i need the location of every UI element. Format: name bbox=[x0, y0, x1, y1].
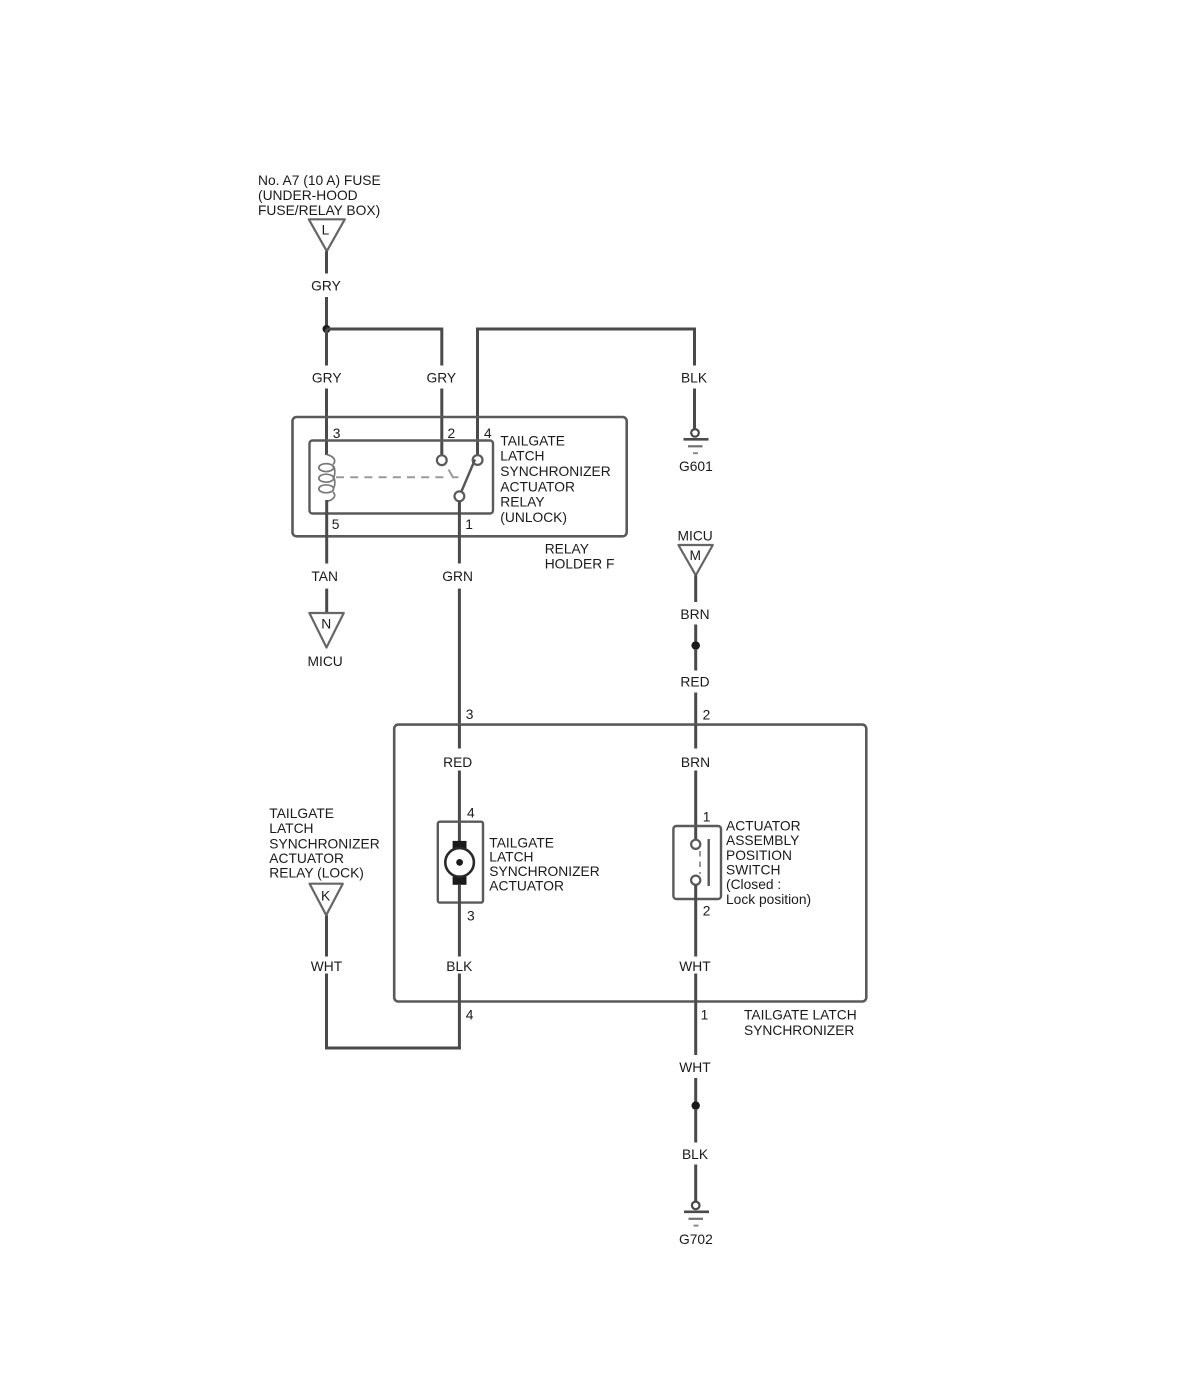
wire ground branch resume to G601 bbox=[693, 389, 696, 430]
svg-text:BRN: BRN bbox=[680, 607, 709, 622]
wire GRN down to synchronizer box bbox=[458, 589, 461, 725]
relay holder F outer box bbox=[293, 417, 627, 536]
svg-text:WHT: WHT bbox=[679, 1060, 711, 1075]
wire coil bottom to pin 5 exit bbox=[325, 500, 328, 564]
relay coil bbox=[319, 455, 335, 502]
wire junction to branch 2 horizontal bbox=[327, 328, 442, 331]
relay contact pin 2 bbox=[437, 455, 447, 465]
junction dot bbox=[323, 325, 331, 333]
svg-text:BLK: BLK bbox=[446, 959, 473, 974]
wire L to GRY bbox=[325, 251, 328, 273]
wire pin-4 top horizontal to ground branch bbox=[478, 328, 695, 331]
svg-text:G702: G702 bbox=[679, 1232, 713, 1247]
wire junction down (left GRY branch) bbox=[325, 329, 328, 366]
switch contact bottom bbox=[691, 876, 700, 885]
synchronizer box label bbox=[744, 1008, 857, 1038]
splice dot WHT/BLK bbox=[692, 1101, 700, 1109]
wire splice to RED bbox=[694, 649, 697, 671]
connector N (MICU) bbox=[309, 613, 343, 648]
svg-text:RED: RED bbox=[680, 675, 709, 690]
svg-text:(UNLOCK): (UNLOCK) bbox=[500, 510, 567, 525]
wire actuator pin 3 down bbox=[458, 885, 461, 957]
svg-text:1: 1 bbox=[701, 1008, 709, 1023]
wire box pin 2 to BRN bbox=[694, 725, 697, 749]
svg-text:LATCH: LATCH bbox=[500, 449, 544, 464]
wire box pin 3 to RED bbox=[458, 725, 461, 749]
connector K (relay lock) bbox=[310, 884, 343, 916]
svg-text:2: 2 bbox=[448, 426, 456, 441]
svg-text:WHT: WHT bbox=[311, 959, 343, 974]
ground G702 bbox=[679, 1202, 713, 1248]
svg-text:HOLDER F: HOLDER F bbox=[545, 556, 615, 571]
switch blade (closed) bbox=[708, 839, 710, 886]
svg-text:BLK: BLK bbox=[681, 371, 708, 386]
svg-text:RELAY (LOCK): RELAY (LOCK) bbox=[269, 866, 364, 881]
svg-text:BRN: BRN bbox=[681, 755, 710, 770]
svg-text:FUSE/RELAY BOX): FUSE/RELAY BOX) bbox=[258, 203, 380, 218]
wire WHT down through box bottom bbox=[694, 974, 697, 1056]
svg-text:TAN: TAN bbox=[311, 569, 338, 584]
svg-text:RELAY: RELAY bbox=[500, 495, 544, 510]
svg-text:MICU: MICU bbox=[678, 529, 713, 544]
svg-text:RED: RED bbox=[443, 755, 472, 770]
wire middle branch resume to relay pin 2 bbox=[440, 389, 443, 456]
wire relay pin 1 down bbox=[458, 501, 461, 563]
wire up to WHT bbox=[325, 974, 328, 1050]
svg-text:N: N bbox=[321, 616, 331, 631]
svg-text:BLK: BLK bbox=[682, 1147, 709, 1162]
splice dot BRN/RED bbox=[691, 641, 700, 650]
wire RED to box pin 2 bbox=[694, 693, 697, 725]
wire M to BRN bbox=[694, 575, 697, 602]
connector M (MICU) bbox=[678, 545, 712, 575]
svg-text:G601: G601 bbox=[679, 459, 713, 474]
svg-text:SYNCHRONIZER: SYNCHRONIZER bbox=[500, 464, 610, 479]
svg-text:TAILGATE: TAILGATE bbox=[489, 835, 554, 850]
svg-text:ACTUATOR: ACTUATOR bbox=[489, 879, 564, 894]
motor M1 center dot bbox=[456, 859, 463, 866]
svg-text:SYNCHRONIZER: SYNCHRONIZER bbox=[489, 864, 599, 879]
svg-text:SYNCHRONIZER: SYNCHRONIZER bbox=[269, 836, 379, 851]
svg-text:ASSEMBLY: ASSEMBLY bbox=[726, 833, 799, 848]
svg-text:ACTUATOR: ACTUATOR bbox=[726, 818, 801, 833]
connector L (fuse terminal triangle) bbox=[309, 219, 345, 251]
svg-text:SWITCH: SWITCH bbox=[726, 863, 780, 878]
wire left branch resume to relay pin 3 bbox=[325, 389, 328, 456]
svg-text:1: 1 bbox=[465, 517, 473, 532]
wire ground branch vertical upper bbox=[693, 328, 696, 366]
switch contact top bbox=[691, 840, 700, 849]
svg-text:SYNCHRONIZER: SYNCHRONIZER bbox=[744, 1023, 854, 1038]
wire switch pin 2 down bbox=[694, 885, 697, 957]
relay lock label text bbox=[269, 806, 379, 881]
svg-text:TAILGATE LATCH: TAILGATE LATCH bbox=[744, 1008, 857, 1023]
wire branch 2 vertical upper bbox=[440, 328, 443, 366]
svg-text:LATCH: LATCH bbox=[269, 821, 313, 836]
relay label text bbox=[500, 433, 610, 525]
svg-text:M: M bbox=[690, 548, 702, 563]
svg-text:1: 1 bbox=[703, 809, 711, 824]
relay actuation dashed link bbox=[336, 470, 459, 478]
svg-text:RELAY: RELAY bbox=[545, 542, 589, 557]
svg-text:WHT: WHT bbox=[679, 959, 711, 974]
motor M1 top brush bbox=[453, 841, 467, 849]
svg-text:3: 3 bbox=[333, 426, 341, 441]
wire relay pin 4 riser bbox=[476, 328, 479, 456]
svg-text:4: 4 bbox=[484, 426, 492, 441]
svg-text:LATCH: LATCH bbox=[489, 850, 533, 865]
svg-text:TAILGATE: TAILGATE bbox=[500, 433, 565, 448]
svg-text:ACTUATOR: ACTUATOR bbox=[269, 851, 344, 866]
wire BLK down through box to turn bbox=[458, 974, 461, 1050]
fuse label No. A7 (10 A) FUSE bbox=[258, 173, 381, 218]
svg-text:2: 2 bbox=[703, 903, 711, 918]
svg-text:L: L bbox=[322, 223, 330, 238]
wire RED to actuator pin 4 bbox=[458, 771, 461, 842]
motor M1 body bbox=[445, 848, 474, 877]
svg-text:GRY: GRY bbox=[312, 371, 342, 386]
wire BRN to splice bbox=[694, 625, 697, 643]
wire horizontal return bbox=[325, 1047, 461, 1050]
switch dashed link bbox=[699, 851, 701, 874]
wire splice to BLK bbox=[694, 1109, 697, 1143]
svg-text:4: 4 bbox=[466, 1008, 474, 1023]
relay inner box bbox=[310, 441, 494, 514]
relay holder label bbox=[545, 542, 615, 572]
actuator box bbox=[438, 822, 483, 903]
wire WHT to splice bbox=[694, 1078, 697, 1102]
svg-text:3: 3 bbox=[467, 909, 475, 924]
svg-text:4: 4 bbox=[467, 806, 475, 821]
svg-text:2: 2 bbox=[703, 708, 711, 723]
motor M1 bottom brush bbox=[453, 877, 467, 885]
wire TAN to connector N bbox=[325, 589, 328, 613]
svg-text:No. A7 (10 A) FUSE: No. A7 (10 A) FUSE bbox=[258, 173, 381, 188]
svg-text:GRY: GRY bbox=[311, 279, 341, 294]
position switch box bbox=[673, 826, 721, 899]
svg-text:ACTUATOR: ACTUATOR bbox=[500, 479, 575, 494]
ground G601 bbox=[679, 429, 713, 474]
relay contact pin 4 bbox=[473, 455, 483, 465]
svg-text:GRY: GRY bbox=[426, 371, 456, 386]
svg-text:Lock position): Lock position) bbox=[726, 892, 811, 907]
svg-text:TAILGATE: TAILGATE bbox=[269, 806, 334, 821]
switch label text bbox=[726, 818, 811, 907]
wire BRN to switch pin 1 bbox=[694, 771, 697, 840]
wire WHT up to connector K bbox=[325, 915, 328, 956]
svg-text:GRN: GRN bbox=[442, 569, 473, 584]
svg-text:POSITION: POSITION bbox=[726, 848, 792, 863]
tailgate latch synchronizer box bbox=[394, 725, 866, 1002]
svg-text:5: 5 bbox=[332, 517, 340, 532]
svg-text:(UNDER-HOOD: (UNDER-HOOD bbox=[258, 188, 358, 203]
actuator label text bbox=[489, 835, 599, 893]
svg-text:3: 3 bbox=[466, 707, 474, 722]
svg-text:MICU: MICU bbox=[308, 654, 343, 669]
relay switch blade bbox=[461, 460, 475, 493]
wire GRY to junction bbox=[325, 297, 328, 329]
relay common contact bbox=[455, 491, 465, 501]
svg-text:(Closed :: (Closed : bbox=[726, 877, 781, 892]
wire BLK to G702 bbox=[694, 1165, 697, 1202]
svg-text:K: K bbox=[321, 888, 331, 903]
